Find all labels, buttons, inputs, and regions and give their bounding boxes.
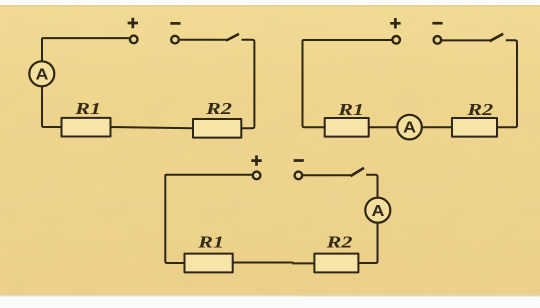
svg-text:A: A — [371, 202, 384, 220]
svg-text:A: A — [403, 118, 416, 136]
svg-text:R2: R2 — [205, 99, 232, 118]
svg-text:R2: R2 — [466, 100, 493, 119]
svg-text:R1: R1 — [197, 233, 224, 252]
svg-text:A: A — [35, 65, 48, 83]
svg-text:R2: R2 — [325, 233, 352, 252]
svg-text:R1: R1 — [74, 99, 101, 118]
svg-text:R1: R1 — [337, 100, 364, 119]
